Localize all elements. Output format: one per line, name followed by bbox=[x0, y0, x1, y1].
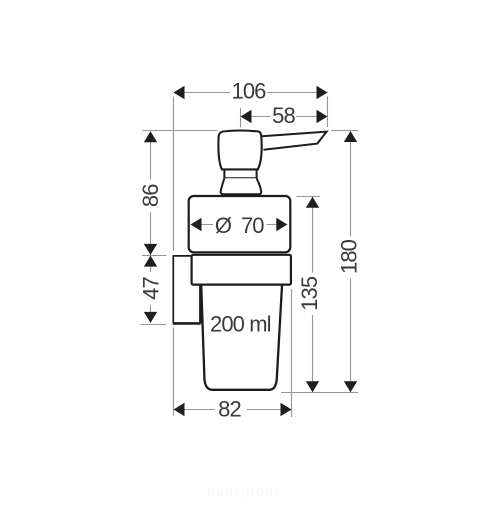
arrow 47 bottom bbox=[144, 312, 157, 323]
dimension 82 line bbox=[174, 409, 292, 411]
arrow 86 bottom bbox=[144, 244, 157, 255]
arrow dia70 left bbox=[191, 218, 202, 231]
svg-text:180: 180 bbox=[336, 239, 361, 274]
arrow 82 right bbox=[281, 403, 292, 416]
arrow 82 left bbox=[174, 403, 185, 416]
extension line right of 106 bbox=[327, 97, 329, 128]
svg-text:82: 82 bbox=[218, 396, 241, 421]
dimension 47 line bbox=[150, 256, 152, 323]
arrow 47 top bbox=[144, 256, 157, 267]
arrow 106 right bbox=[317, 86, 328, 99]
svg-text:hansgrohe: hansgrohe bbox=[207, 483, 282, 499]
arrow 58 left bbox=[241, 110, 252, 123]
extension line bottom of 47 bbox=[141, 324, 167, 326]
extension line bottom shared 135 and 180 bbox=[281, 392, 358, 394]
dimension diameter 70 line bbox=[191, 224, 288, 226]
svg-text:Ø: Ø bbox=[215, 213, 232, 238]
extension line right of 82 bbox=[291, 289, 293, 417]
extension line left of 82 bbox=[173, 328, 175, 416]
svg-text:70: 70 bbox=[241, 213, 264, 238]
dimension 180 line bbox=[350, 131, 352, 392]
dimension 106 line bbox=[174, 92, 328, 94]
arrow 86 top bbox=[144, 131, 157, 142]
arrow 180 top bbox=[344, 131, 357, 142]
arrow 135 top bbox=[306, 197, 319, 208]
pump spout bbox=[262, 132, 327, 150]
svg-text:106: 106 bbox=[231, 79, 266, 104]
arrow 106 left bbox=[174, 86, 185, 99]
dimension 86 line bbox=[150, 132, 152, 255]
extension line between 86 and 47 bbox=[142, 255, 167, 257]
extension line left of 58 bbox=[240, 108, 242, 128]
extension line top of 86 bbox=[143, 130, 218, 132]
extension line left of 106 bbox=[173, 97, 175, 251]
wall bracket bbox=[173, 256, 191, 323]
arrow 135 bottom bbox=[306, 381, 319, 392]
wall bracket bottom edge bbox=[173, 322, 201, 325]
extension line top of 180 bbox=[331, 130, 358, 132]
arrow 58 right bbox=[317, 110, 328, 123]
svg-text:58: 58 bbox=[272, 103, 295, 128]
arrow 180 bottom bbox=[344, 381, 357, 392]
pump neck bbox=[224, 169, 256, 178]
pump head bbox=[218, 131, 261, 170]
collar body bbox=[189, 196, 291, 252]
svg-text:86: 86 bbox=[138, 184, 163, 207]
wall bracket right edge bbox=[199, 285, 201, 323]
dimension 58 line bbox=[241, 116, 328, 118]
holder ring bbox=[192, 255, 291, 285]
extension line top of 135 bbox=[297, 196, 321, 198]
cup body bbox=[201, 284, 282, 390]
dimension 135 line bbox=[312, 197, 314, 392]
svg-text:200 ml: 200 ml bbox=[210, 311, 271, 336]
svg-text:47: 47 bbox=[138, 277, 163, 300]
svg-text:135: 135 bbox=[297, 276, 322, 311]
arrow dia70 right bbox=[276, 218, 287, 231]
pump base flare bbox=[221, 178, 262, 194]
